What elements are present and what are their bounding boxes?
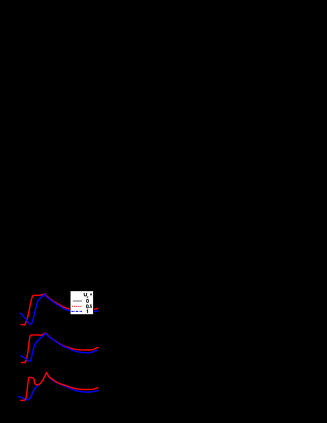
plot3 red curve U=0.5 [21, 372, 98, 400]
plot 2 (middle) [21, 333, 99, 363]
legend title U_d = [84, 293, 86, 296]
plot2 red curve U=0.5 [21, 333, 98, 363]
plot2 blue curve U=1 [21, 333, 98, 361]
plot 1 (top) [20, 294, 98, 325]
legend entry 0.5 (red dashed) [72, 305, 82, 307]
plot 3 (bottom) [18, 372, 98, 400]
plot1 red curve U=0.5 [21, 294, 98, 325]
legend entry 0 (gray solid) [73, 300, 82, 302]
legend entry 1 (blue dash-dot) [71, 310, 82, 312]
legend box [70, 291, 93, 315]
plot3 blue curve U=1 [18, 373, 98, 400]
plot1 blue curve U=1 [20, 294, 98, 324]
